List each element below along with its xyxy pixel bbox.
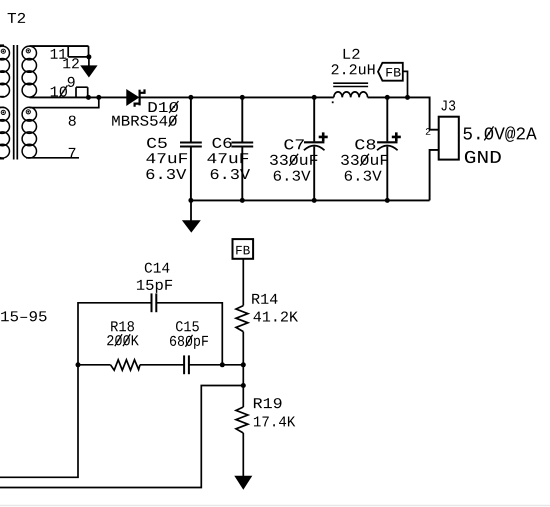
wire pin 11 to pin 12 tie <box>67 46 69 57</box>
label C5 <box>147 138 167 148</box>
node C6 top <box>240 95 245 100</box>
wire C14 top loop <box>78 303 222 365</box>
capacitor C7 (polarized) <box>304 97 328 200</box>
connector J3 <box>439 117 459 160</box>
node C7 bottom <box>312 198 317 203</box>
node pin 9/10 junction <box>86 95 91 100</box>
label GND <box>465 151 501 163</box>
wire node A down to R19 <box>242 365 244 407</box>
power flag FB (feedback divider top) <box>233 239 254 259</box>
label 2.2uH <box>332 64 375 74</box>
diode D10 MBRS540 (Schottky) <box>126 89 144 107</box>
label C7 rating 6.3V <box>274 171 311 181</box>
resistor R18 <box>111 360 141 370</box>
wire pin 11 lead <box>30 45 89 47</box>
pin label 8 <box>69 116 76 126</box>
wire pin 12 lead <box>68 46 89 57</box>
label R14 value 41.2K <box>254 311 299 321</box>
wire divider tap to off-page <box>0 386 243 488</box>
transformer T2 primary winding upper (partial at left edge) <box>0 45 10 97</box>
label J3 <box>441 100 455 110</box>
transformer T2 core <box>14 45 18 160</box>
transformer T2 secondary upper polarity dot <box>26 49 30 53</box>
ground (pins 11/12) <box>80 57 97 78</box>
label C15 value 680pF <box>170 335 208 349</box>
pin label 9 <box>68 77 75 87</box>
inductor L2 phase dot <box>332 101 334 103</box>
label C15 <box>176 321 199 331</box>
wire main rail L2 to corner, down to J3 pin 2 <box>368 97 439 129</box>
pin label 7 <box>69 148 76 158</box>
transformer T2 secondary winding pins 11/12/9/10 <box>22 46 36 97</box>
wire R18 to C15 <box>140 364 184 366</box>
node C6 bottom <box>240 198 245 203</box>
transformer T2 primary upper polarity dot <box>1 49 5 53</box>
wire pin 9 lead <box>76 87 88 97</box>
label C6 value 47uF <box>207 153 248 163</box>
label C6 <box>213 138 232 148</box>
wire main rail diode to L2 <box>141 96 334 98</box>
label 5.0V@2A <box>464 126 537 142</box>
wire C15 to node A <box>189 364 243 366</box>
ground (divider bottom) <box>234 476 252 490</box>
capacitor C5 <box>180 97 202 200</box>
label C5 rating 6.3V <box>146 169 186 179</box>
wire J3 GND pin to bottom rail <box>430 150 439 201</box>
sheet border (bottom) <box>0 505 550 507</box>
label R19 <box>254 398 282 408</box>
node C5 bottom <box>188 198 193 203</box>
label C8 value 330uF <box>341 154 388 166</box>
capacitor C8 (polarized) <box>377 97 401 200</box>
wire R14 to node A <box>242 332 244 365</box>
label FB (flag) <box>386 68 400 77</box>
pin number 2 (J3) <box>426 128 431 135</box>
pin label 11 <box>51 49 66 59</box>
wire FB box to R14 <box>242 259 244 306</box>
node C8 bottom <box>385 198 390 203</box>
label R18 <box>111 321 134 331</box>
wire FB flag to rail <box>403 71 408 97</box>
label C14 value 15pF <box>137 280 172 293</box>
label C14 <box>145 263 170 273</box>
wire pin 8 lead <box>30 97 99 107</box>
wire bottom rail <box>191 199 430 201</box>
label FB (box) <box>236 246 250 255</box>
label C7 value 330uF <box>270 154 317 166</box>
node C8 top <box>385 95 390 100</box>
wire mid line left segment <box>78 364 111 366</box>
power flag FB (to feedback) <box>378 63 403 81</box>
label C8 <box>355 139 375 149</box>
capacitor C6 <box>231 97 253 200</box>
pin label 12 <box>63 58 79 68</box>
label C5 value 47uF <box>146 153 187 163</box>
label C7 <box>284 139 303 149</box>
capacitor C15 <box>184 355 189 374</box>
pin label 10 <box>51 85 68 97</box>
label C8 rating 6.3V <box>345 171 382 181</box>
transformer T2 secondary winding pins 8/7 <box>22 107 36 158</box>
node C14/C15 right junction <box>220 362 225 367</box>
ground (output return) <box>182 200 201 232</box>
wire pin 10 lead / main rail to diode <box>30 96 127 98</box>
node FB tap top <box>405 95 410 100</box>
wire pin 7 lead <box>26 157 79 159</box>
node C7 top <box>312 95 317 100</box>
label C6 rating 6.3V <box>211 169 250 179</box>
node divider tap junction <box>241 383 246 388</box>
label L2 <box>344 49 360 59</box>
node pin 11/12 junction <box>86 54 91 59</box>
label MBRS540 <box>112 115 177 127</box>
node C5 top <box>188 95 193 100</box>
label T2 <box>8 13 26 23</box>
resistor R19 <box>236 407 248 433</box>
resistor R14 <box>236 306 248 332</box>
label R19 value 17.4K <box>254 417 295 427</box>
transformer T2 primary winding lower (partial at left edge) <box>0 107 10 158</box>
label R14 <box>252 294 277 304</box>
inductor L2 <box>333 83 368 97</box>
label D10 <box>149 101 179 113</box>
wire R19 to ground <box>242 433 244 476</box>
node pin 8 rail junction <box>96 95 101 100</box>
capacitor C14 <box>152 293 157 312</box>
wire left leg to off-page <box>0 365 78 478</box>
label 15-95 (off-page net) <box>1 311 46 321</box>
label R18 value 200K <box>107 334 139 346</box>
transformer T2 lower secondary polarity dot <box>26 110 30 114</box>
node A (R14/R19/feedback junction) <box>241 362 246 367</box>
node mid-left junction <box>76 362 81 367</box>
transformer T2 primary lower polarity dot <box>1 110 5 114</box>
